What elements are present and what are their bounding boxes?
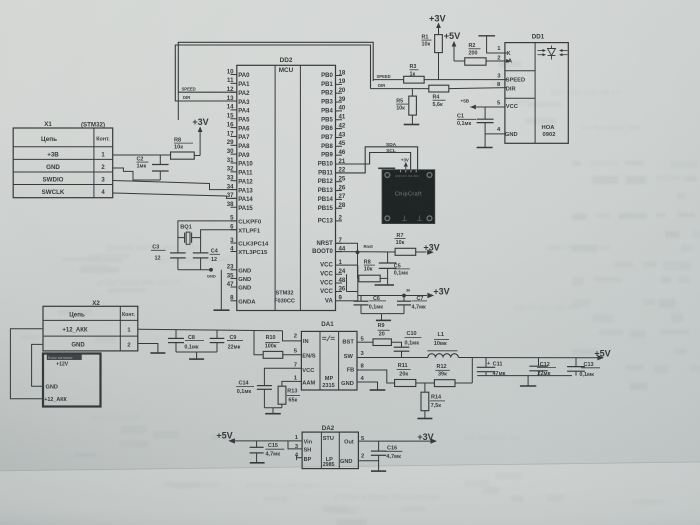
DA1 pin7 VCC	[294, 363, 315, 374]
resistor R13 65k	[278, 381, 301, 407]
power flag +3V (X1)	[192, 117, 208, 156]
wire NRST to node	[336, 243, 358, 252]
resistor R14 7.5k	[421, 383, 445, 418]
power flag +5V output	[594, 349, 610, 361]
power flag +3V at VA	[427, 286, 449, 298]
resistor R5 10k	[396, 89, 416, 125]
wire X1 pin1 +3V rail	[113, 154, 171, 156]
wire R8b to C5 leg	[380, 277, 387, 279]
wire C8 C9 common gnd	[176, 352, 217, 359]
resistor R12 39k	[434, 364, 455, 387]
DD1 pin2 A	[497, 55, 512, 64]
DA2 pin4 stub	[295, 453, 302, 461]
capacitor C16 4.7uF	[371, 441, 402, 471]
wire rail to IN	[283, 331, 302, 341]
crystal BQ1	[178, 225, 201, 245]
wire crystal ground run	[178, 269, 211, 271]
DA1 pin5 BST	[342, 337, 364, 346]
DA2 pin5 Out wire	[358, 436, 430, 442]
node Rnst junction	[356, 244, 374, 254]
DA1 pin5 EN	[294, 349, 316, 360]
ground below R5	[404, 124, 420, 126]
ground below C14 R13	[265, 413, 281, 415]
stub bar above DD1 pin1 K	[478, 36, 506, 53]
wire +5V to R2	[454, 60, 465, 62]
wire DA1 GND pin4	[357, 382, 378, 390]
resistor R7 10k	[395, 233, 416, 255]
ground below C1	[477, 147, 493, 149]
power supply box	[43, 354, 101, 407]
wire R12 to output node	[455, 358, 472, 383]
wire +3V rail (VA)	[358, 295, 427, 297]
capacitor C9 22uF	[210, 330, 243, 352]
DD1 internal LED symbol	[538, 46, 568, 60]
wire C6 C7 common	[361, 314, 404, 321]
capacitor C1 0.1uF	[457, 107, 494, 147]
connector X1 table	[13, 121, 113, 198]
wire X2 pin1 rail	[138, 329, 283, 331]
connector X2 table	[43, 300, 138, 351]
wire VCC bus	[342, 265, 358, 301]
MCU right pins PC13 NRST BOOT0 VCC VA	[312, 215, 346, 305]
capacitor C12 22uF	[529, 358, 556, 378]
DD1 pin3 SPEED	[497, 74, 525, 84]
wire node down to R8	[357, 252, 359, 278]
wire X1 GND step	[113, 168, 161, 180]
wire caps common gnd	[477, 376, 572, 386]
resistor R10 100k	[263, 335, 283, 358]
MCU DD2 box	[237, 57, 336, 311]
DD1 pin5 VCC	[497, 100, 518, 110]
wire box GND to X2 pin2	[32, 344, 43, 386]
power flag +3V DA2 out	[417, 432, 437, 444]
node GND junction	[207, 268, 216, 279]
capacitor C15 4.7uF	[250, 441, 285, 463]
wire FB divider	[357, 370, 395, 383]
node C7 junction	[402, 289, 410, 298]
wire C14 R13 common	[264, 408, 282, 414]
DA1 pin8 FB	[347, 363, 365, 373]
wire R3 to DD1 pin3	[424, 79, 507, 81]
power flag +3V (top)	[429, 13, 446, 34]
wire rail to R10	[254, 331, 263, 355]
wire SWCLK to PA14	[113, 193, 237, 198]
wire PA2 SPEED loop	[178, 42, 373, 120]
wire R10 to EN	[283, 354, 302, 356]
capacitor C5 0.1uF	[379, 252, 410, 285]
capacitor C11 47uF polarized	[477, 358, 506, 378]
capacitor C7 4.7uF	[397, 296, 427, 314]
DD1 pin4 GND	[497, 127, 518, 138]
DD1 part number HOA 0902	[542, 125, 556, 138]
wire SCL from PB11	[336, 142, 418, 173]
ground DA1	[370, 389, 386, 391]
inductor L1 10uH	[427, 332, 458, 357]
wire XTLPF1 to C4	[201, 230, 237, 253]
capacitor C4 12pF	[193, 248, 220, 269]
MCU port A pins PA0-PA15 with pin numbers	[227, 68, 254, 212]
wire DD1 GND pin4	[485, 133, 505, 135]
wire R2 to DD1 pin2	[486, 60, 507, 62]
MCU port B pins PB0-PB15 with pin numbers	[318, 69, 346, 211]
wire SDA from PB10	[336, 148, 411, 170]
ground bar OLED	[378, 168, 395, 170]
power flag +3V OLED	[401, 158, 409, 171]
capacitor C14 0.1uF	[236, 368, 301, 407]
wire R1 bottom to SPEED net	[438, 53, 440, 80]
DA1 pin4 GND	[341, 376, 364, 387]
DA2 pin3 wire	[288, 441, 302, 450]
resistor R8 (top, 10k)	[171, 138, 195, 160]
OLED display module ChipCraft	[382, 170, 435, 224]
wire body to C10	[391, 342, 401, 347]
wire CLKPF0 loop	[178, 221, 237, 253]
power flag +5V	[444, 31, 461, 61]
resistor R3 1k	[404, 64, 425, 83]
resistor R1 10k	[422, 35, 443, 53]
resistor R8 (BOOT0, 10k)	[358, 260, 381, 282]
wire GND pins bus	[221, 270, 230, 310]
capacitor C2 1uF	[137, 155, 169, 180]
wire L1 to +5V rail	[458, 357, 597, 359]
power flag +5V into DA2	[216, 431, 302, 444]
capacitor C3 12pF	[151, 244, 186, 269]
wire R8 to +3V	[194, 155, 200, 157]
capacitor C8 0.1uF	[168, 330, 204, 352]
node SPEED right	[373, 74, 403, 79]
ground below C12	[520, 385, 536, 387]
MCU left pins osc and ground	[227, 215, 269, 306]
schematic ink	[10, 13, 610, 471]
DA1 pin3 SW	[344, 351, 365, 360]
wire box +12 to X2 pin1	[10, 329, 43, 399]
ground below C16	[371, 470, 386, 472]
power flag +3V at R7	[416, 242, 440, 255]
wire SWDIO to PA13	[113, 181, 237, 190]
DA1 pin1 AAM	[294, 376, 316, 387]
ground below C8 C9	[189, 358, 204, 360]
wire X2 pin2 gnd	[138, 344, 158, 353]
node DIR right	[371, 83, 429, 88]
ground at X2	[150, 352, 165, 354]
ground below R14	[417, 418, 432, 420]
capacitor C13 0.1uF	[567, 358, 600, 378]
DD1 pin1 K	[497, 46, 511, 57]
regulator DA2 box	[302, 425, 358, 469]
resistor R2 200	[465, 43, 486, 65]
ground below C15	[250, 462, 265, 464]
wire R4 to DD1 pin8	[449, 88, 507, 89]
faint show-through from reverse side	[92, 90, 640, 502]
DA2 pin2 GND wire	[358, 453, 378, 460]
ground bar below MCU	[214, 309, 230, 311]
wire R11 R12	[416, 382, 435, 384]
resistor R11 20k	[395, 363, 416, 387]
resistor R4 5.6k	[429, 85, 449, 108]
wire PA3 DIR loop	[175, 45, 370, 101]
lower desk/paper-edge region	[0, 462, 700, 525]
capacitor C10 0.1uF	[394, 331, 422, 357]
power flag +5V into DD1 VCC	[461, 98, 505, 109]
wire BOOT0 node to R7	[336, 251, 396, 253]
regulator DA1 box	[301, 321, 357, 390]
DD1 pin8 DIR	[497, 82, 516, 92]
wire SW rail	[357, 357, 428, 359]
ground below C5	[375, 284, 394, 286]
optocoupler DD1 box	[505, 34, 568, 144]
wire BST to C10	[357, 341, 373, 343]
resistor R9 20 (ground bar)	[376, 320, 391, 337]
BST series body	[373, 339, 391, 346]
capacitor C6 0.1uF	[354, 296, 387, 314]
DA2 pin1	[295, 435, 299, 441]
DA1 pin2 IN	[294, 334, 309, 345]
